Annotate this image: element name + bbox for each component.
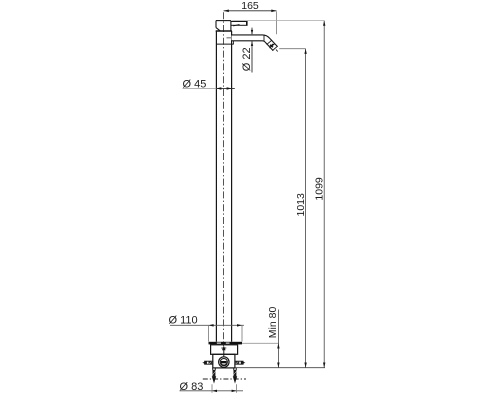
svg-text:1099: 1099 [313,177,325,201]
svg-text:Ø 110: Ø 110 [169,314,198,326]
spout [232,35,276,49]
right port [235,361,246,365]
svg-text:Ø 22: Ø 22 [241,47,253,71]
bottom reference line [235,367,325,369]
spout centerline [227,37,269,39]
dimension D45 [183,79,235,91]
flow arrow up [221,346,226,358]
head cap [216,21,232,32]
column centerline [223,12,225,346]
svg-text:Ø 83: Ø 83 [180,381,204,393]
column [216,31,231,342]
dimension D110 [169,314,244,341]
svg-text:Min 80: Min 80 [267,307,279,339]
dimension 165 [224,0,277,34]
dimension D22 [241,28,253,73]
upper valve body [211,345,238,355]
lever handle [231,21,247,26]
left inlet pipe [212,368,216,384]
flange [209,342,243,345]
shoulder seam [216,38,233,45]
svg-text:1013: 1013 [295,193,307,217]
cartridge circle [219,357,229,367]
right inlet pipe [233,368,237,384]
dimension Min 80 [242,307,280,368]
pipes centerline [203,378,246,380]
dimension D83 [180,381,244,393]
svg-text:Ø 45: Ø 45 [183,79,207,91]
left port [202,361,213,365]
dimension 1099 [232,21,325,368]
dimension 1013 [279,49,307,368]
aerator [267,40,278,51]
lower valve body [213,354,235,368]
